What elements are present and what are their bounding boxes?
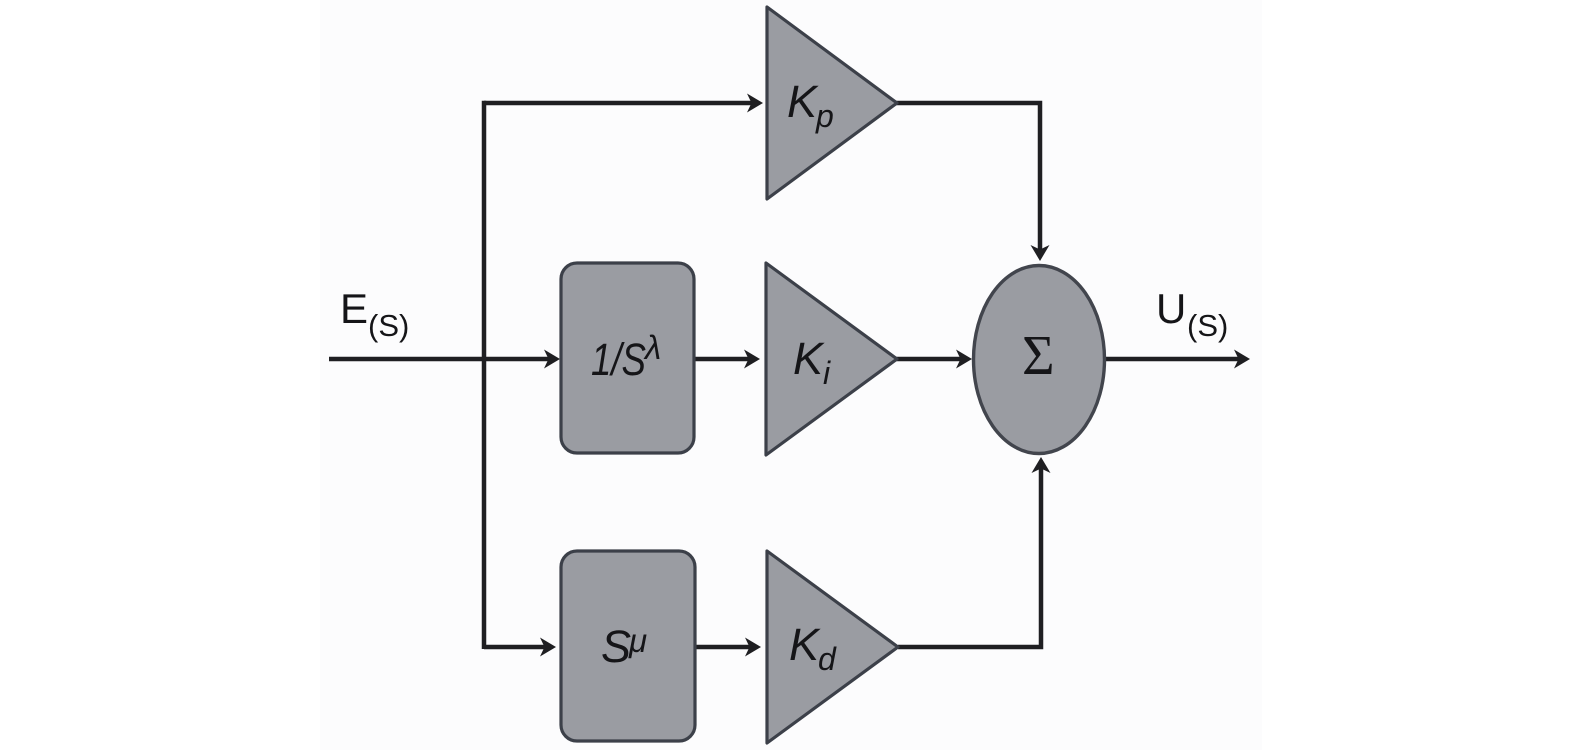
svg-text:K: K: [787, 76, 819, 127]
svg-text:E: E: [340, 285, 368, 332]
svg-text:(S): (S): [368, 308, 409, 343]
label 1/S^lambda: [591, 329, 661, 385]
svg-text:d: d: [818, 641, 837, 677]
differentiator block S^mu: [561, 551, 695, 741]
wire: Kd output to summer: [898, 457, 1051, 647]
label U(S) output: [1156, 285, 1228, 343]
wire: S^mu block to Kd amplifier: [695, 638, 761, 657]
label S^mu: [601, 621, 647, 672]
label Kd: [789, 619, 837, 677]
svg-text:1/S: 1/S: [591, 334, 646, 385]
wire: Kp output to summer: [896, 103, 1050, 261]
label Ki: [793, 333, 831, 391]
wire: branch to S^mu block: [484, 638, 556, 657]
label E(S) input: [340, 285, 409, 343]
wire: branch to Kp amplifier: [484, 94, 763, 113]
wire: 1/S^lambda block to Ki amplifier: [694, 350, 760, 369]
svg-text:K: K: [789, 619, 821, 670]
wire: summer output U(S): [1104, 350, 1250, 369]
svg-text:K: K: [793, 333, 825, 384]
svg-text:S: S: [601, 621, 631, 672]
amplifier Kd (gain triangle): [767, 551, 898, 743]
svg-text:λ: λ: [643, 329, 661, 366]
wire: vertical branch bus: [482, 101, 487, 649]
summer (sigma ellipse): [974, 266, 1105, 454]
svg-text:Σ: Σ: [1022, 325, 1055, 387]
label Kp: [787, 76, 834, 134]
svg-text:p: p: [815, 98, 834, 134]
svg-text:μ: μ: [628, 622, 647, 659]
svg-text:i: i: [823, 355, 831, 391]
integrator block 1/S^lambda: [561, 263, 694, 453]
wire: Ki output to summer: [896, 350, 972, 369]
amplifier Ki (gain triangle): [766, 263, 897, 455]
svg-text:(S): (S): [1187, 308, 1228, 343]
wire: E(S) input to 1/S^lambda block: [329, 350, 560, 369]
svg-text:U: U: [1156, 285, 1186, 332]
amplifier Kp (gain triangle): [767, 7, 897, 199]
